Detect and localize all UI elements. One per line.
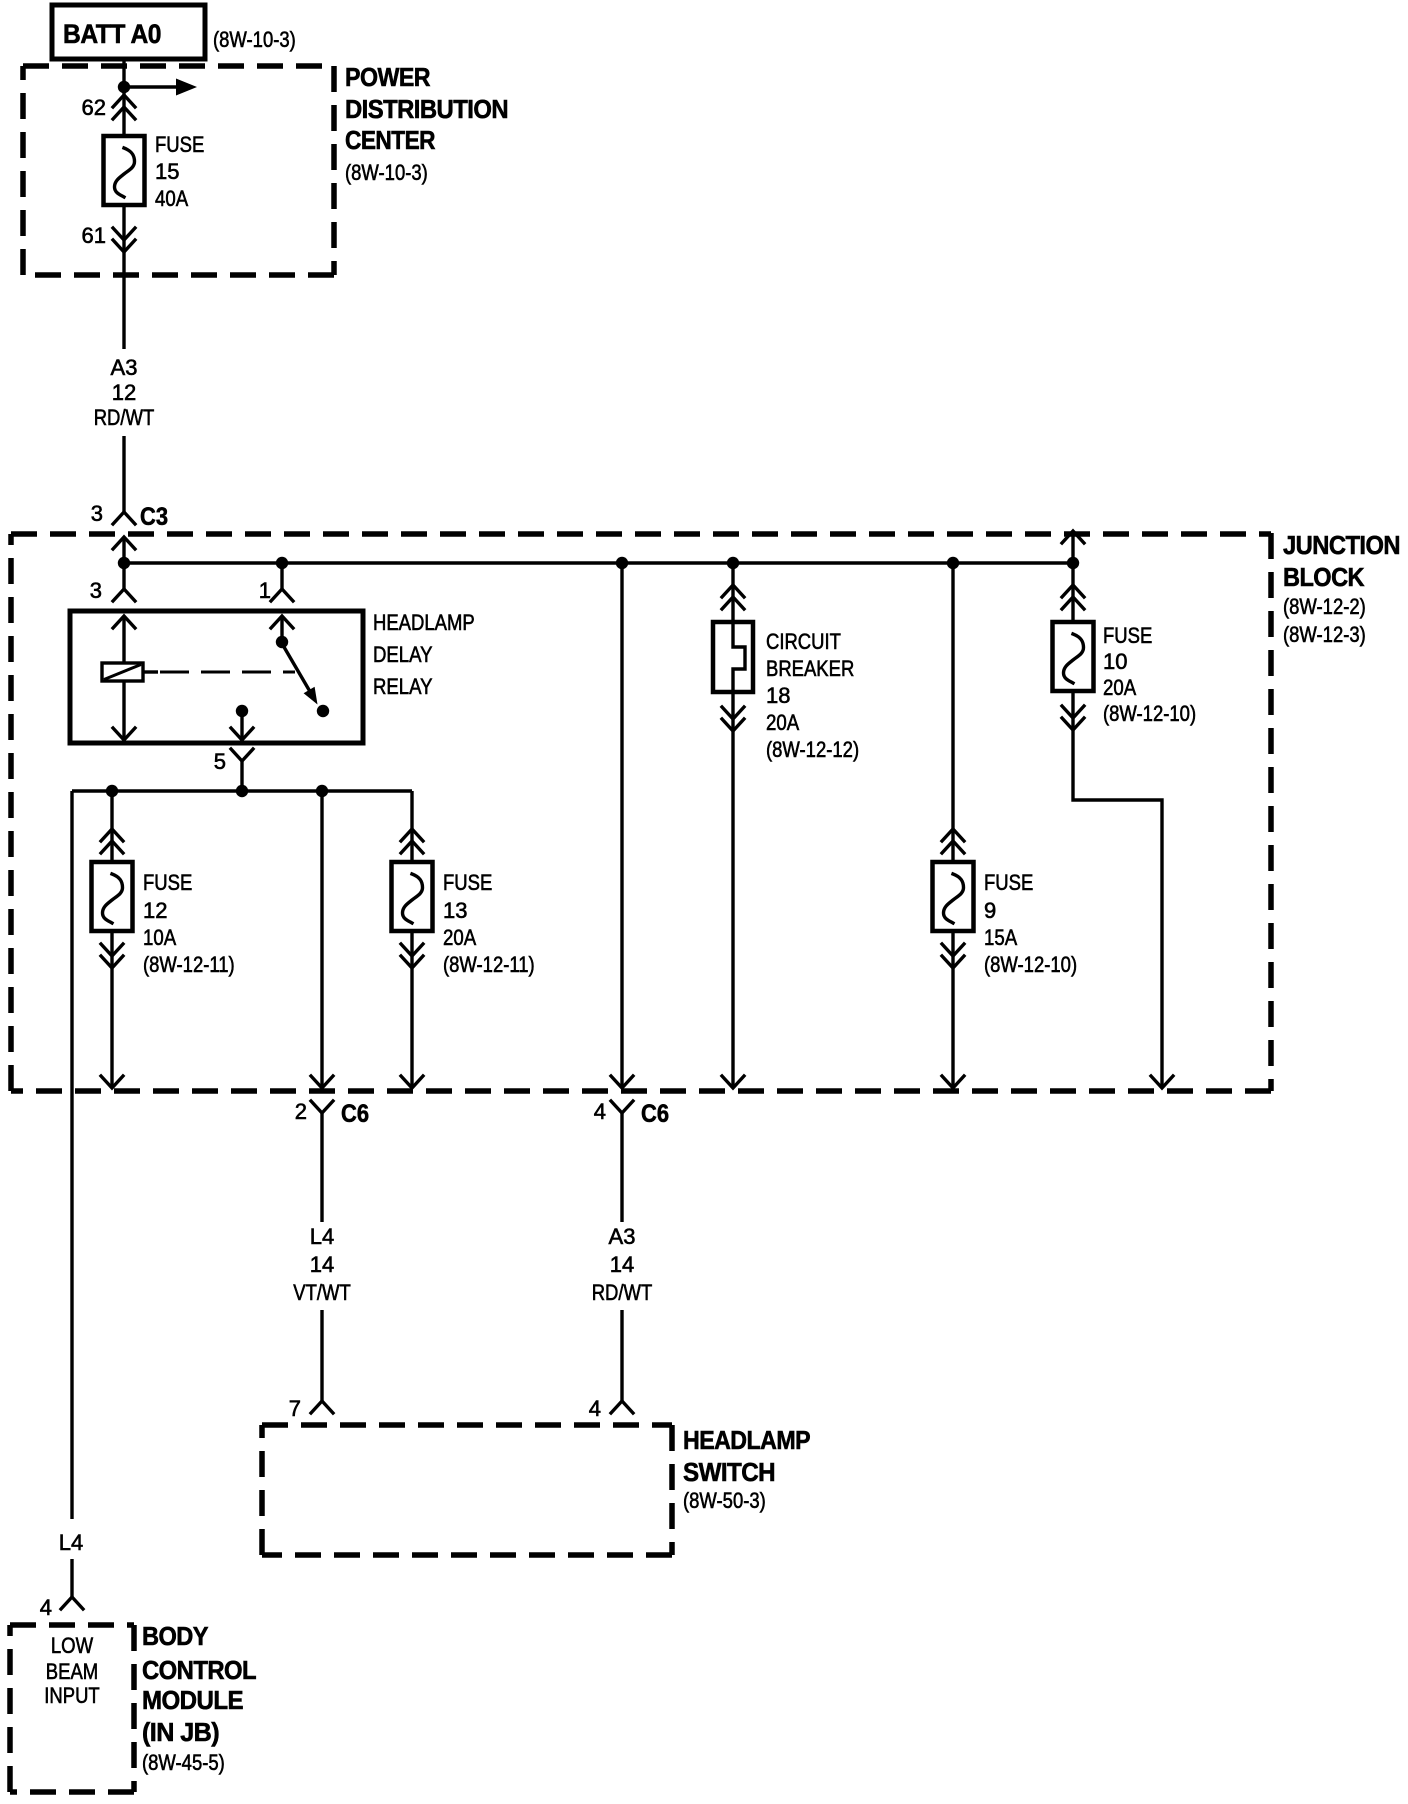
- wire label L4 14 VT/WT: [293, 1224, 351, 1305]
- svg-text:CONTROL: CONTROL: [142, 1655, 257, 1685]
- svg-text:BEAM: BEAM: [46, 1659, 98, 1684]
- svg-text:SWITCH: SWITCH: [683, 1457, 775, 1487]
- svg-text:FUSE: FUSE: [984, 870, 1033, 895]
- fuse 10 entry chevron at JB top edge: [1062, 531, 1084, 543]
- circuit breaker 18 value label: [766, 629, 859, 762]
- wire: C3 to bus: [122, 537, 125, 563]
- fuse F12: [92, 862, 133, 931]
- svg-text:(8W-12-11): (8W-12-11): [143, 952, 235, 977]
- wire: coil to relay bottom chevron: [122, 681, 125, 740]
- svg-text:BLOCK: BLOCK: [1283, 562, 1365, 592]
- svg-text:10A: 10A: [143, 925, 176, 950]
- headlamp switch label: [683, 1425, 810, 1513]
- wire: splice feed arrow right: [124, 79, 197, 96]
- svg-text:A3: A3: [609, 1224, 636, 1249]
- svg-text:RELAY: RELAY: [373, 674, 433, 699]
- fuse F10: [1053, 622, 1094, 691]
- dashed actuation line: [160, 671, 295, 674]
- svg-text:L4: L4: [59, 1530, 83, 1555]
- power distribution center label: [345, 62, 508, 185]
- svg-text:FUSE: FUSE: [1103, 623, 1152, 648]
- relay pin 5 chevron at box edge: [231, 728, 253, 740]
- svg-text:62: 62: [82, 95, 106, 120]
- svg-text:LOW: LOW: [51, 1633, 93, 1658]
- svg-text:DELAY: DELAY: [373, 642, 433, 667]
- wire: JB top edge to bus at fuse 10: [1071, 531, 1074, 563]
- svg-text:(8W-12-3): (8W-12-3): [1283, 622, 1366, 647]
- C6 pin2 exit chevron at JB edge: [311, 1076, 333, 1088]
- wire: distribution to C6 pin 2: [320, 791, 323, 1088]
- wire: bus to fuse 10: [1071, 563, 1074, 624]
- wire: bus to relay pin 3: [122, 563, 125, 589]
- svg-text:20A: 20A: [443, 925, 476, 950]
- wire: relay pin 3 to coil: [122, 616, 125, 665]
- node: distribution at fuse 12: [106, 785, 118, 797]
- wire: common node to relay bottom: [240, 711, 243, 740]
- svg-text:FUSE: FUSE: [143, 870, 192, 895]
- svg-text:14: 14: [610, 1252, 634, 1277]
- wire: pin 5 to distribution line: [240, 761, 243, 791]
- circuit breaker CB18: [713, 622, 753, 692]
- svg-text:CIRCUIT: CIRCUIT: [766, 629, 841, 654]
- headlamp switch pin 7 fork: [289, 1396, 333, 1421]
- power distribution center dashed box: [23, 66, 334, 275]
- svg-text:(8W-10-3): (8W-10-3): [345, 160, 428, 185]
- fuse F15: [104, 136, 145, 205]
- wire: bus to fuse 9: [951, 563, 954, 864]
- junction block dashed box: [11, 533, 1271, 1091]
- wire: fuse 9 to JB edge: [951, 931, 954, 1088]
- low beam input label: [44, 1633, 99, 1708]
- svg-text:RD/WT: RD/WT: [592, 1280, 653, 1305]
- headlamp switch pin 4 fork: [589, 1396, 633, 1421]
- svg-text:(8W-12-11): (8W-12-11): [443, 952, 535, 977]
- connector C3 pin 3: [91, 501, 168, 549]
- svg-text:C6: C6: [341, 1100, 369, 1128]
- svg-text:4: 4: [589, 1396, 601, 1421]
- body control module dashed box: [10, 1625, 134, 1792]
- svg-text:BREAKER: BREAKER: [766, 656, 854, 681]
- svg-text:18: 18: [766, 683, 790, 708]
- svg-text:15: 15: [155, 159, 179, 184]
- relay pin 5 fork: [214, 749, 253, 774]
- svg-text:INPUT: INPUT: [44, 1683, 99, 1708]
- svg-text:9: 9: [984, 898, 996, 923]
- svg-text:CENTER: CENTER: [345, 125, 436, 155]
- svg-text:10: 10: [1103, 649, 1127, 674]
- BCM pin 4 fork: [40, 1595, 83, 1620]
- wire: bus to C6 pin 4: [620, 563, 623, 1088]
- node: bus at main feed: [118, 557, 130, 569]
- relay coil: [102, 663, 143, 681]
- wire: fuse 13 to JB edge: [410, 931, 413, 1088]
- wire: label to headlamp switch pin 4: [620, 1310, 623, 1401]
- connector C6 pin 4 fork: [594, 1099, 669, 1128]
- circuit breaker bottom chevrons: [722, 707, 744, 731]
- wire: distribution to fuse 12: [110, 791, 113, 864]
- svg-text:(8W-12-10): (8W-12-10): [984, 952, 1077, 977]
- svg-text:BODY: BODY: [142, 1621, 208, 1651]
- wire: relay pin 1 to switch contact: [280, 616, 283, 638]
- svg-text:3: 3: [91, 501, 103, 526]
- svg-text:(8W-45-5): (8W-45-5): [142, 1750, 225, 1775]
- svg-text:12: 12: [112, 380, 136, 405]
- body control module label: [142, 1621, 257, 1775]
- fuse 12 bottom chevrons: [101, 944, 123, 968]
- fuse 13 top chevrons: [401, 829, 423, 853]
- svg-text:20A: 20A: [1103, 675, 1136, 700]
- relay common node: [236, 705, 248, 717]
- svg-text:(8W-12-2): (8W-12-2): [1283, 594, 1366, 619]
- fuse 9 exit chevron at JB edge: [942, 1076, 964, 1088]
- svg-text:14: 14: [310, 1252, 334, 1277]
- svg-text:1: 1: [259, 578, 271, 603]
- node: bus at fuse 10: [1067, 557, 1079, 569]
- svg-text:61: 61: [82, 223, 106, 248]
- wire label A3 14 RD/WT: [592, 1224, 653, 1305]
- node: bus at C6 pin 4 wire: [616, 557, 628, 569]
- svg-text:(8W-10-3): (8W-10-3): [213, 27, 296, 52]
- svg-text:3: 3: [90, 578, 102, 603]
- wire: bus to circuit breaker 18: [731, 563, 734, 624]
- junction block label: [1283, 530, 1400, 647]
- relay coil bottom chevron: [113, 728, 135, 740]
- relay switch arm: [284, 647, 318, 705]
- svg-text:JUNCTION: JUNCTION: [1283, 530, 1400, 560]
- svg-text:(8W-50-3): (8W-50-3): [683, 1488, 766, 1513]
- svg-text:(8W-12-10): (8W-12-10): [1103, 701, 1196, 726]
- svg-text:POWER: POWER: [345, 62, 431, 92]
- svg-text:FUSE: FUSE: [443, 870, 492, 895]
- node: distribution at C6 pin 2 wire: [316, 785, 328, 797]
- fuse F13: [392, 862, 433, 931]
- wire: BATT A0 down to splice: [122, 59, 125, 87]
- wire label A3 12 RD/WT: [94, 355, 155, 430]
- fuse 9 value label: [984, 870, 1077, 977]
- fuse 10 bottom chevrons: [1062, 706, 1084, 730]
- svg-text:4: 4: [40, 1595, 52, 1620]
- svg-text:7: 7: [289, 1396, 301, 1421]
- fuse 9 bottom chevrons: [942, 944, 964, 968]
- wire: C6 pin 4 to label: [620, 1113, 623, 1222]
- fuse 13 value label: [443, 870, 535, 977]
- wire: splice to fuse 15: [122, 87, 125, 140]
- relay pin 1 connector: [259, 578, 293, 628]
- fuse 12 top chevrons: [101, 829, 123, 853]
- headlamp switch dashed box: [262, 1425, 672, 1555]
- wire: fuse 12 to JB edge: [110, 931, 113, 1088]
- fuse 9 top chevrons: [942, 829, 964, 853]
- fuse 15 value label: [155, 132, 204, 211]
- fuse 10 exit chevron at JB edge: [1151, 1076, 1173, 1088]
- wire: fuse 15 to label A3: [122, 205, 125, 349]
- wire: circuit breaker to JB edge: [731, 692, 734, 1088]
- svg-text:12: 12: [143, 898, 167, 923]
- svg-text:2: 2: [295, 1099, 307, 1124]
- node: distribution at pin 5: [236, 785, 248, 797]
- svg-text:40A: 40A: [155, 186, 188, 211]
- headlamp delay relay label: [373, 610, 475, 699]
- wire: coil lead to dashed link: [143, 670, 158, 673]
- relay pin 3 connector: [90, 578, 135, 628]
- node: bus at relay pin 1: [276, 557, 288, 569]
- svg-text:A3: A3: [111, 355, 138, 380]
- node: bus at circuit breaker 18: [727, 557, 739, 569]
- svg-text:HEADLAMP: HEADLAMP: [373, 610, 475, 635]
- wire: label to headlamp switch pin 7: [320, 1310, 323, 1401]
- fuse 10 top chevrons: [1062, 585, 1084, 609]
- wire: bus to relay pin 1: [280, 563, 283, 589]
- relay switch fixed contact: [276, 636, 288, 648]
- distribution line below relay: [72, 789, 412, 792]
- wire: label L4 to BCM pin 4: [70, 1559, 73, 1597]
- svg-text:13: 13: [443, 898, 467, 923]
- wire: distribution to fuse 13: [410, 791, 413, 864]
- headlamp delay relay box: [70, 611, 363, 743]
- fuse 12 value label: [143, 870, 235, 977]
- wire: C6 pin 2 to label: [320, 1113, 323, 1222]
- fuse 10 value label: [1103, 623, 1196, 726]
- svg-text:C6: C6: [641, 1100, 669, 1128]
- fuse 13 bottom chevrons: [401, 944, 423, 968]
- svg-text:VT/WT: VT/WT: [293, 1280, 351, 1305]
- C6 pin4 exit chevron at JB edge: [611, 1076, 633, 1088]
- node: bus at fuse 9: [947, 557, 959, 569]
- bus wire in junction block: [124, 561, 1073, 564]
- battery feed box BATT A0: [52, 5, 205, 59]
- svg-text:5: 5: [214, 749, 226, 774]
- pin 61 connector chevrons: [82, 223, 135, 252]
- relay switch moving contact: [317, 705, 329, 717]
- svg-text:FUSE: FUSE: [155, 132, 204, 157]
- svg-text:20A: 20A: [766, 710, 799, 735]
- svg-text:MODULE: MODULE: [142, 1685, 243, 1715]
- fuse 13 exit chevron at JB edge: [401, 1076, 423, 1088]
- svg-text:HEADLAMP: HEADLAMP: [683, 1425, 810, 1455]
- wire: fuse 10 elbow to JB edge: [1073, 691, 1162, 1088]
- svg-text:(8W-12-12): (8W-12-12): [766, 737, 859, 762]
- svg-text:4: 4: [594, 1099, 606, 1124]
- svg-text:(IN JB): (IN JB): [142, 1717, 219, 1747]
- svg-text:15A: 15A: [984, 925, 1017, 950]
- svg-text:C3: C3: [140, 503, 168, 531]
- fuse 12 exit chevron at JB edge: [101, 1076, 123, 1088]
- node: splice in PDC: [118, 81, 130, 93]
- wire: label to connector C3: [122, 436, 125, 512]
- svg-text:L4: L4: [310, 1224, 334, 1249]
- svg-text:DISTRIBUTION: DISTRIBUTION: [345, 94, 508, 124]
- circuit breaker top chevrons: [722, 585, 744, 609]
- fuse F9: [933, 862, 974, 931]
- pin 62 connector chevrons: [82, 95, 135, 120]
- wire: distribution line to BCM (left drop): [70, 791, 73, 1519]
- svg-text:BATT A0: BATT A0: [63, 19, 161, 49]
- circuit breaker exit chevron at JB edge: [722, 1076, 744, 1088]
- svg-text:RD/WT: RD/WT: [94, 405, 155, 430]
- connector C6 pin 2 fork: [295, 1099, 369, 1128]
